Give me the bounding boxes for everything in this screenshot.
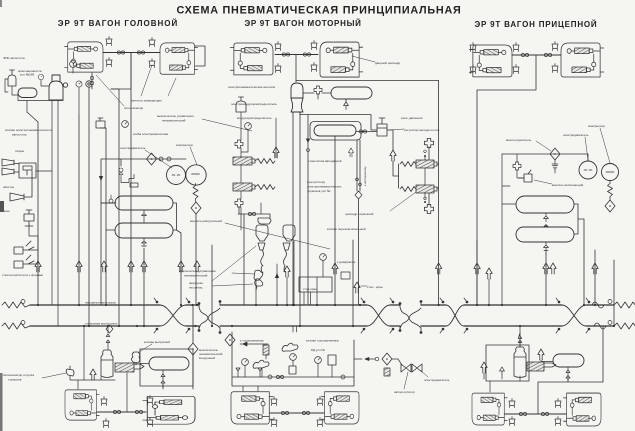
end cock dots boundary 3 — [440, 298, 468, 333]
motor ticks trailer — [584, 169, 592, 171]
gauge cab second — [70, 61, 77, 68]
wire head vertical 3 — [100, 128, 106, 305]
leader agregat — [404, 372, 408, 389]
sander wire drops — [261, 203, 294, 305]
wire head vertical 5 door feed — [130, 53, 132, 306]
hose zigzag right end feed — [614, 302, 635, 308]
EPK autostop valve — [8, 70, 16, 86]
cock bogie G2 a — [281, 411, 288, 414]
svg-text:выключатель управленияпневмат: выключатель управленияпневматический — [179, 269, 216, 278]
leader door cylinder motor — [352, 56, 375, 62]
autostop bottle head — [101, 350, 113, 378]
svg-text:воздухораспределитель: воздухораспределитель — [237, 116, 272, 120]
trapezoid bogie G1R a — [147, 396, 153, 405]
wire filter drop — [554, 160, 556, 173]
inter-car crossover 3 — [446, 305, 464, 326]
cock pair panel — [276, 375, 283, 378]
end cock dots boundary 4 — [556, 298, 590, 333]
release arrow row a3 — [101, 261, 107, 272]
driver brake valve (kran mashinista) — [49, 75, 68, 100]
svg-text:кран машинистаусл.№395: кран машинистаусл.№395 — [18, 69, 42, 77]
release arrow row a4 — [128, 261, 134, 272]
svg-text:цилиндр тормозной: цилиндр тормозной — [345, 212, 374, 216]
leader kompressor head — [190, 147, 197, 165]
bogie block G2 right — [321, 392, 359, 424]
svg-text:выключательпневматическийвозду: выключательпневматическийвоздушный — [199, 348, 223, 360]
hatched stub below diamond — [384, 368, 390, 376]
autorezhim line — [335, 136, 360, 305]
cock at reservoir right — [359, 130, 366, 133]
trapezoid bogie G2L a — [271, 397, 277, 406]
cross valve trailer left — [513, 162, 521, 170]
wire trailer compressor area — [502, 154, 524, 305]
svg-text:сигнализатор отпускатормозов: сигнализатор отпускатормозов — [3, 373, 34, 382]
cross valve motor left 2 — [235, 199, 243, 207]
leader elektrodvigatel aux — [420, 370, 428, 377]
wire gauge2 stub — [72, 67, 74, 73]
svg-text:ЭР 9Т ВАГОН ГОЛОВНОЙ: ЭР 9Т ВАГОН ГОЛОВНОЙ — [58, 19, 178, 28]
gauge sander — [320, 254, 327, 261]
brake cylinder motor right upper — [400, 160, 437, 168]
bogie block G2 left — [231, 392, 273, 424]
wire trailer vertical far right — [613, 260, 615, 326]
trapezoid bogie G1R b — [147, 418, 153, 427]
release arrow avtorezhim — [348, 148, 353, 157]
bracket right of B2 — [195, 46, 205, 66]
pantograph panel border motor — [232, 332, 354, 386]
zigzag below compressor head — [193, 184, 198, 202]
trapezoid bogie G1L a — [101, 397, 107, 406]
svg-text:электропневматические вентили: электропневматические вентили — [228, 85, 275, 89]
arrow filled sander — [275, 273, 279, 278]
hose zigzag left end feed — [2, 302, 30, 308]
svg-text:авторегулятор: авторегулятор — [394, 390, 415, 394]
pantograph valve curvy 2 — [253, 360, 269, 368]
gauge motor left — [245, 123, 252, 130]
wire arrow to capsule — [541, 360, 553, 362]
scan artifact left 2 — [0, 373, 3, 431]
trapezoid valve on B5 bottom — [470, 65, 476, 74]
gauge below curvy — [290, 354, 297, 361]
svg-text:компрессор: компрессор — [588, 124, 605, 128]
svg-text:стоп-кран: стоп-кран — [303, 287, 317, 291]
stop box motor — [299, 277, 332, 292]
svg-text:маслоотделитель: маслоотделитель — [506, 138, 532, 142]
door line head car — [103, 52, 160, 54]
svg-text:клапан выпускной: клапан выпускной — [144, 340, 170, 344]
inter-car crossover 2 — [367, 305, 390, 326]
wire reservoir link trailer — [502, 204, 584, 305]
bogie line G3 — [505, 413, 566, 415]
hose curls boundary 1 — [198, 301, 221, 334]
hose zigzag right end brake — [614, 323, 635, 329]
electric motor circle trailer — [579, 161, 597, 179]
trapezoid bogie G3L a — [509, 399, 515, 408]
wire regulator row — [308, 115, 429, 305]
main brake pipe — [30, 325, 614, 327]
trapezoid bogie G2L b — [271, 418, 277, 427]
cross valve left of reservoir — [314, 86, 322, 94]
leader klapan vypusknoy — [139, 344, 152, 352]
check dots above bottle — [518, 333, 522, 347]
trapezoid bogie G2R b — [317, 418, 323, 427]
release arrow row a13 — [592, 263, 598, 274]
check valve between reservoirs — [142, 210, 147, 223]
reservoir cab small — [18, 88, 37, 98]
release arrow head band — [90, 369, 96, 380]
sand funnel left — [258, 243, 265, 250]
wire head band bottom — [70, 326, 127, 412]
wire door drop trailer — [477, 55, 536, 305]
wire trailer res drop — [545, 253, 547, 305]
wire motor right cylinders — [425, 157, 439, 198]
bogie block G3 right — [563, 393, 601, 426]
wire to aux compressor — [392, 359, 402, 365]
svg-text:ЭПК автостопа: ЭПК автостопа — [3, 56, 25, 60]
svg-text:ЭР 9Т ВАГОН МОТОРНЫЙ: ЭР 9Т ВАГОН МОТОРНЫЙ — [244, 19, 361, 28]
door cylinder block B4 motor car — [320, 42, 363, 77]
pressure gauge cab 2 — [76, 81, 82, 87]
arrow to pantograph — [240, 342, 268, 346]
trapezoid valve on B3 top — [275, 42, 281, 51]
svg-text:клапан электропневматического: клапан электропневматическогоавтостопа — [5, 128, 52, 137]
hose zigzag left end brake — [2, 323, 30, 329]
brake cylinder head band — [115, 363, 144, 372]
cock bogie G1 b — [135, 410, 142, 413]
junction dots extra — [83, 304, 490, 327]
release arrow trailer band left — [481, 362, 487, 373]
pressure gauge cab 3 — [86, 81, 92, 87]
main reservoir 1 head — [115, 196, 173, 210]
sand pipe squiggle left — [261, 250, 264, 273]
circle valve loop bottom — [109, 199, 113, 203]
trapezoid valve on B3 bottom — [275, 64, 281, 73]
end cock circle right feed — [608, 300, 612, 304]
svg-text:СХЕМА ПНЕВМАТИЧЕСКАЯ ПРИНЦИП: СХЕМА ПНЕВМАТИЧЕСКАЯ ПРИНЦИПИАЛЬНАЯ — [176, 5, 461, 17]
wire motor left column — [241, 112, 248, 230]
svg-text:к диафрагме: к диафрагме — [337, 260, 356, 264]
release valve flag head — [132, 352, 140, 365]
trapezoid valve B5 right top — [513, 43, 519, 52]
end cock circle left brake — [21, 321, 25, 325]
scan artifact left 1 — [0, 201, 4, 212]
cross valve motor left 1 — [235, 140, 243, 148]
check valve below reservoir 2 — [142, 238, 147, 246]
compressor circle head — [186, 165, 206, 185]
check diamond on brake pipe head — [106, 325, 113, 333]
door cylinder block B2 head car — [160, 43, 198, 74]
svg-text:электродвигатель: электродвигатель — [563, 133, 589, 137]
trapezoid valve on B4 top — [311, 41, 317, 50]
panel inlet diamond — [225, 334, 235, 346]
brake cylinder motor left upper — [233, 157, 275, 165]
svg-text:напорная магистраль: напорная магистраль — [85, 301, 116, 305]
leader maslootdelitel — [536, 141, 551, 151]
trapezoid valve on B1 top — [106, 37, 112, 46]
svg-text:стеклоочистители с кранами: стеклоочистители с кранами — [2, 273, 43, 277]
wire head vertical feed — [27, 112, 38, 305]
check marks below trailer capsule — [566, 367, 570, 381]
sand box right — [283, 225, 295, 241]
leader door valves — [96, 65, 176, 106]
hose curls boundary 4 — [592, 302, 606, 329]
switch device near pipe — [254, 270, 263, 280]
stop crane arrow motor — [354, 282, 360, 293]
svg-text:кран: кран — [3, 209, 10, 213]
sand box left — [256, 225, 268, 241]
brake header pipe motor — [300, 112, 377, 130]
gauge panel left — [242, 359, 249, 366]
wire trailer band bottom — [486, 345, 529, 381]
end cock circle right brake — [608, 321, 612, 325]
wire head vertical 7 reservoir out — [173, 203, 181, 305]
check marks below head reservoir — [161, 370, 165, 388]
release arrow row a5 — [141, 261, 147, 272]
wire bogie G1 feed — [162, 384, 164, 389]
curvy valve sander — [255, 279, 263, 290]
wire panel internals — [236, 355, 332, 391]
cock sander line — [248, 212, 255, 215]
leader elektrodvigatel trailer — [585, 137, 588, 160]
circle valves on loop line — [159, 157, 163, 161]
wire flag to reservoir — [140, 363, 149, 365]
end cock head door line 2 — [137, 51, 144, 54]
release arrow RD outlet — [390, 150, 396, 161]
main reservoir 2 head — [115, 223, 173, 238]
cylinder device panel — [289, 366, 296, 374]
brake cylinder trailer band — [527, 362, 556, 371]
release arrow trailer band mid — [538, 349, 544, 360]
leader klapan obratny — [534, 180, 552, 184]
spare reservoir head — [149, 357, 189, 370]
svg-text:выключатель управленияпневмат: выключатель управленияпневматический — [157, 114, 194, 123]
leader stop kran — [361, 285, 367, 287]
wire arrow to pipe motor — [275, 118, 277, 158]
svg-text:тифон: тифон — [15, 149, 24, 153]
door cylinder block B3 motor car — [230, 43, 273, 75]
end cock trailer door line 1 — [521, 53, 528, 56]
regulator reservoir trailer — [553, 354, 584, 367]
cock bogie G3 a — [519, 412, 526, 415]
drop line head box — [192, 305, 194, 389]
pressure gauge cab 1 — [38, 74, 43, 79]
oil separator diamond trailer — [605, 200, 615, 212]
wire head vertical brake valve 1 — [78, 116, 80, 305]
cock bogie G3 b — [541, 412, 548, 415]
release arrow row a7 — [194, 261, 200, 272]
svg-text:клапан токоприемника: клапан токоприемника — [306, 339, 339, 343]
rod output regulator — [377, 118, 387, 136]
leader signalizator otpuska — [42, 373, 66, 378]
inter-car crossover 4 — [562, 305, 586, 326]
tifon horn lower — [2, 168, 14, 175]
wire motor vertical brake branch — [352, 240, 354, 326]
wire stop box feeds — [304, 261, 323, 306]
svg-text:РД усл.№: РД усл.№ — [311, 348, 326, 352]
check dots above head bottle — [106, 326, 110, 350]
wiper device 1 — [14, 241, 34, 254]
junction dots brake pipe — [88, 325, 615, 327]
svg-text:свисток: свисток — [3, 185, 15, 189]
air distributor motor (upper bell) — [291, 83, 303, 98]
release arrow motor right lower — [424, 204, 433, 213]
end cock dots boundary 2 — [361, 298, 394, 333]
wire cab bus — [5, 79, 79, 326]
svg-text:вентили запирающие: вентили запирающие — [131, 99, 162, 103]
small device on line 335 — [341, 272, 350, 279]
release arrow extra — [284, 266, 290, 277]
trapezoid bogie G2R a — [317, 397, 323, 406]
release arrow row a2 — [76, 261, 82, 272]
aux compressor bowtie 1 — [401, 364, 411, 372]
wire cab devices drop — [29, 230, 38, 264]
check valve below spare reservoir — [344, 102, 349, 110]
leader forsunki a — [212, 246, 256, 286]
pressure reservoir motor — [310, 122, 361, 141]
scan artifact top left — [0, 0, 2, 7]
trapezoid bogie G3R a — [555, 399, 561, 408]
trailer header pipe — [502, 154, 588, 161]
electric motor circle head — [167, 166, 186, 185]
bogie line G2 — [270, 412, 324, 414]
svg-text:электродвигатель: электродвигатель — [424, 378, 450, 382]
release arrow row a6 — [178, 261, 184, 272]
oil separator diamond head — [191, 202, 201, 214]
leader kompressor trailer — [600, 128, 610, 163]
aux compressor bowtie 2 — [412, 364, 422, 372]
sander ept valve — [258, 218, 271, 224]
filter diamond head loop — [147, 153, 157, 165]
leader vykl upr head — [202, 119, 252, 131]
wire G3 left feed — [489, 381, 491, 392]
filter diamond motor band — [382, 353, 392, 365]
end cock circle left feed — [21, 300, 25, 304]
filter marks below diamond — [552, 164, 558, 169]
relay device panel — [328, 355, 336, 365]
gauge panel right — [315, 357, 322, 364]
bracket device head loop — [121, 175, 138, 188]
zigzag hose below compressor — [608, 181, 613, 200]
wire reservoir row — [303, 93, 346, 102]
hatched bar panel — [263, 345, 269, 355]
release arrow 489 — [486, 268, 492, 279]
cock panel bottom 1 — [268, 375, 272, 379]
bogie block G1 left — [65, 390, 99, 420]
tifon horn upper — [2, 159, 14, 166]
wire tifon box out — [36, 170, 52, 172]
trapezoid valve on B2 bottom — [149, 59, 155, 68]
end cock motor door line 1 — [282, 53, 289, 56]
equipment box head band — [140, 349, 193, 386]
moisture collector diamond top — [550, 148, 560, 160]
wire door drop head — [92, 53, 131, 90]
trapezoid valve B5 right bottom — [513, 65, 519, 74]
wire capsule to bogie — [538, 326, 603, 414]
release valve arrow motor — [273, 147, 279, 158]
svg-text:к токоприемнику: к токоприемнику — [240, 339, 264, 343]
cock after arrow — [375, 357, 379, 361]
svg-text:дверной цилиндр: дверной цилиндр — [375, 61, 400, 65]
svg-text:к авторежиму: к авторежиму — [363, 166, 367, 186]
svg-text:электровоздухораспределитель: электровоздухораспределитель — [231, 102, 277, 106]
control switch device head — [96, 118, 105, 128]
bogie block G3 left — [472, 393, 507, 425]
small valve trailer band — [500, 367, 505, 374]
air switch diamond head — [188, 343, 198, 355]
wire panel out — [354, 358, 375, 361]
svg-text:сигнализатор: сигнализатор — [124, 106, 144, 110]
wire head vertical brake valve 2 — [88, 87, 90, 326]
end cock trailer door line 2 — [544, 53, 551, 56]
svg-text:ЭР 9Т ВАГОН ПРИЦЕПНОЙ: ЭР 9Т ВАГОН ПРИЦЕПНОЙ — [475, 20, 598, 29]
trapezoid valve on B5 top — [470, 43, 476, 52]
sander header line — [238, 207, 270, 305]
wire head vertical 6 — [143, 248, 145, 326]
cock panel bottom 2 — [341, 375, 345, 379]
air distributor motor (lower bell) — [291, 98, 303, 112]
release arrow row a10 — [474, 263, 480, 274]
wire reservoir inlets head — [101, 203, 115, 230]
pantograph valve curvy 1 — [282, 343, 298, 351]
autorezhim tick — [355, 178, 362, 199]
svg-text:форсункипесочниц: форсункипесочниц — [189, 281, 203, 290]
EPT unit valve motor — [236, 97, 246, 112]
trapezoid bogie G3R b — [555, 417, 561, 426]
wire arrow extra drop — [256, 277, 287, 305]
release arrow row a8 — [332, 263, 338, 274]
door line trailer car — [512, 54, 561, 56]
hose curls boundary 2 — [399, 301, 422, 334]
end cock dots boundary 1 — [154, 298, 190, 333]
trapezoid valve on B2 top — [149, 38, 155, 47]
small valve chain head — [119, 168, 123, 178]
signal flag head band — [66, 366, 74, 376]
leader regulyator — [390, 129, 404, 130]
trapezoid valve on B6 top — [552, 42, 558, 51]
trapezoid valve on B1 bottom — [106, 58, 112, 67]
svg-text:вентиль разгрузочный: вентиль разгрузочный — [190, 219, 222, 223]
wire diamond to pipe head — [195, 214, 197, 305]
main reservoir 2 trailer — [516, 227, 574, 242]
check valve below trailer reservoir 2 — [544, 242, 549, 254]
trapezoid bogie G1L b — [103, 419, 109, 428]
wire panel feed stubs — [293, 326, 297, 332]
electromagnetic valve trailer — [518, 170, 532, 182]
leader long diagonal motor — [225, 223, 330, 249]
sand funnel right — [283, 243, 290, 250]
wire door drop motor — [295, 55, 297, 83]
motor ticks — [172, 174, 180, 176]
pressure gauge head mid — [122, 121, 129, 128]
release arrow row a12 — [550, 263, 556, 274]
release arrow row a9 — [435, 263, 441, 274]
door cylinder block B5 trailer car — [469, 45, 512, 77]
door cylinder block B1 head car — [64, 42, 103, 72]
cock bogie G1 a — [113, 410, 120, 413]
compressor circle trailer — [602, 164, 619, 181]
wire trailer vertical right — [594, 250, 596, 305]
release arrow row a11 — [543, 263, 549, 274]
svg-text:электродвигатель: электродвигатель — [120, 146, 146, 150]
trapezoid bogie G3L b — [509, 417, 515, 426]
leader cilindr tormoznoy — [390, 192, 416, 211]
compressor tick — [192, 173, 200, 175]
whistle svistok — [10, 171, 32, 201]
wiper device 2 — [14, 255, 34, 268]
compressor loop top line head — [101, 159, 186, 305]
svg-text:вентиль включающий: вентиль включающий — [552, 183, 583, 187]
svg-text:к вентилям автодверей: к вентилям автодверей — [308, 159, 342, 163]
